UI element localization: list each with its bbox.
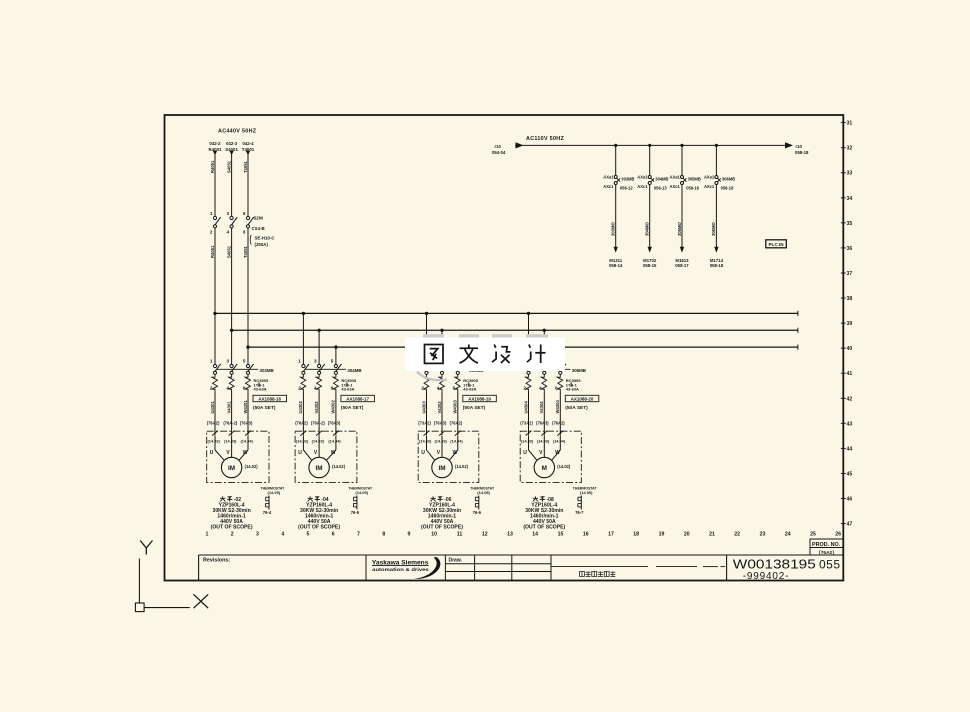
PLC input arrow M1311 — [614, 247, 618, 253]
svg-text:32: 32 — [847, 146, 853, 152]
svg-text:(14.02): (14.02) — [208, 439, 221, 444]
circuit breaker 52M poles — [210, 211, 254, 235]
svg-text:43: 43 — [847, 421, 853, 427]
svg-text:V: V — [437, 450, 441, 456]
svg-text:AXc1: AXc1 — [670, 184, 681, 189]
svg-text:V: V — [314, 450, 318, 456]
svg-text:1: 1 — [298, 359, 301, 364]
svg-text:CS4-B: CS4-B — [252, 226, 265, 231]
svg-text:43-63A: 43-63A — [463, 387, 476, 392]
svg-text:W4303: W4303 — [453, 400, 458, 414]
branch 06 wires overload to motor box — [427, 392, 458, 436]
svg-text:37: 37 — [847, 271, 853, 277]
svg-text:(73A2): (73A2) — [520, 421, 533, 426]
branch 02 cable labels — [210, 400, 248, 414]
motor 02 out-of-scope dash-dot box — [207, 431, 269, 482]
motor 04 terminal labels U V W — [298, 450, 336, 456]
control source label r10 054-04 — [492, 144, 506, 155]
svg-text:43-63A: 43-63A — [566, 387, 579, 392]
svg-text:r10: r10 — [495, 144, 502, 149]
svg-text:(14.03): (14.03) — [537, 439, 550, 444]
svg-text:6: 6 — [243, 230, 246, 235]
svg-text:AXc1: AXc1 — [637, 184, 648, 189]
axis horizontal line — [144, 607, 190, 609]
bus wire phase R — [215, 312, 798, 314]
svg-text:V4304: V4304 — [539, 401, 544, 414]
control drop junction 303MB — [614, 144, 617, 147]
feeder wire labels R4051 S4051 T4051 lower — [210, 245, 248, 258]
control wire 305MB lower — [681, 185, 683, 248]
svg-text:AXa1: AXa1 — [670, 175, 681, 180]
svg-text:43-63A: 43-63A — [341, 387, 354, 392]
svg-text:IM: IM — [228, 465, 235, 472]
svg-text:AC440V 50HZ: AC440V 50HZ — [218, 129, 257, 135]
svg-text:76-7: 76-7 — [575, 510, 584, 515]
overload setting box AX1088-19 — [463, 395, 497, 411]
Yaskawa Siemens logo — [372, 557, 441, 579]
thermal overload relay heaters branch 08 — [526, 374, 563, 391]
PLC input arrow M1613 — [680, 247, 684, 253]
svg-text:(50A SET): (50A SET) — [253, 405, 276, 411]
svg-text:1: 1 — [206, 532, 209, 538]
svg-text:305MO: 305MO — [677, 222, 682, 236]
svg-text:M1311: M1311 — [609, 258, 623, 263]
svg-text:18: 18 — [633, 532, 639, 538]
svg-text:11: 11 — [457, 532, 463, 538]
svg-text:(14.02): (14.02) — [332, 464, 346, 469]
thermostat 76-4 — [261, 486, 286, 515]
svg-text:7: 7 — [357, 532, 360, 538]
feeder phase wires breaker to buses — [215, 228, 248, 365]
feeder wire labels R4051 S4051 T4051 upper — [210, 160, 248, 173]
svg-text:17: 17 — [608, 532, 614, 538]
svg-text:S4051: S4051 — [226, 245, 231, 258]
svg-text:W00138195: W00138195 — [733, 557, 816, 572]
svg-text:5: 5 — [307, 532, 310, 538]
svg-text:R4051: R4051 — [210, 160, 215, 173]
motor 06 nameplate text — [421, 496, 463, 530]
thermal overload relay heaters branch 06 — [424, 374, 461, 391]
svg-text:(14.03): (14.03) — [435, 439, 448, 444]
svg-text:46: 46 — [847, 497, 853, 503]
feeder entry arrows — [213, 151, 250, 155]
svg-text:2: 2 — [210, 230, 213, 235]
axis vertical line — [138, 559, 140, 604]
svg-text:22: 22 — [734, 532, 740, 538]
svg-text:33: 33 — [847, 171, 853, 177]
svg-text:47: 47 — [847, 522, 853, 528]
svg-text:M1702: M1702 — [643, 258, 657, 263]
svg-text:[76A2]: [76A2] — [819, 550, 834, 556]
contactor 305MB main contacts — [421, 359, 483, 391]
PLC IN box — [766, 240, 787, 248]
control wire 306MB lower — [715, 185, 717, 248]
svg-text:058-15: 058-15 — [643, 263, 657, 268]
svg-text:AXa1: AXa1 — [637, 175, 648, 180]
svg-text:13: 13 — [507, 532, 513, 538]
motor 04 lead wires — [303, 436, 336, 461]
svg-text:3: 3 — [256, 532, 259, 538]
svg-text:(14.03): (14.03) — [224, 439, 237, 444]
svg-text:12: 12 — [482, 532, 488, 538]
svg-text:303MO: 303MO — [611, 222, 616, 236]
overload rating labels branch 06 — [463, 378, 478, 392]
svg-text:(14.02): (14.02) — [419, 439, 432, 444]
drawing number W00138195 055 — [733, 557, 841, 582]
svg-text:304MB: 304MB — [347, 368, 361, 373]
watermark gray arc below box — [417, 372, 447, 381]
motor 02 lead wires — [215, 436, 248, 461]
svg-text:39: 39 — [847, 321, 853, 327]
branch 02 page reference labels — [207, 421, 253, 426]
svg-text:SE-H10-C: SE-H10-C — [255, 236, 276, 241]
svg-text:056-16: 056-16 — [686, 186, 699, 191]
svg-text:AX1088-16: AX1088-16 — [258, 396, 281, 401]
thermostat 76-6 — [470, 486, 495, 515]
overload rating labels branch 08 — [566, 378, 581, 392]
svg-text:W4301: W4301 — [243, 400, 248, 414]
control wire 304MB lower — [649, 185, 651, 248]
svg-text:AXc1: AXc1 — [704, 184, 715, 189]
svg-text:U4302: U4302 — [298, 400, 303, 413]
svg-text:9: 9 — [408, 532, 411, 538]
svg-text:(76A3): (76A3) — [328, 421, 341, 426]
svg-text:303MB: 303MB — [260, 368, 274, 373]
svg-text:AXc1: AXc1 — [603, 184, 614, 189]
svg-text:(OUT OF SCOPE): (OUT OF SCOPE) — [298, 525, 340, 531]
svg-text:(14.03): (14.03) — [312, 439, 325, 444]
svg-text:W4304: W4304 — [555, 400, 560, 414]
svg-text:14: 14 — [532, 532, 538, 538]
svg-text:303MB: 303MB — [621, 176, 634, 181]
motor 08 terminal labels U V W — [523, 450, 560, 456]
motor 08 lead wires — [529, 436, 561, 461]
svg-text:PLC IN: PLC IN — [768, 242, 784, 247]
svg-text:V4301: V4301 — [226, 401, 231, 414]
control drop junction 306MB — [715, 144, 718, 147]
control wire 304MB upper — [649, 145, 651, 175]
svg-text:304MO: 304MO — [645, 222, 650, 236]
contactor 304MB main contacts — [298, 359, 361, 391]
svg-text:(14.02): (14.02) — [557, 464, 571, 469]
control bus left arrow — [516, 142, 524, 148]
motor 02 terminal labels U V W — [210, 450, 248, 456]
auxiliary contact 305MB — [670, 175, 701, 191]
svg-text:(50A SET): (50A SET) — [463, 405, 486, 411]
svg-text:058-17: 058-17 — [675, 263, 689, 268]
svg-text:055: 055 — [819, 558, 841, 572]
drawing frame border — [165, 115, 844, 581]
control bus wire — [515, 144, 792, 146]
svg-text:(OUT OF SCOPE): (OUT OF SCOPE) — [211, 525, 253, 531]
svg-text:U4303: U4303 — [421, 400, 426, 413]
svg-text:(50A SET): (50A SET) — [565, 405, 588, 411]
svg-text:V: V — [539, 450, 543, 456]
svg-text:M1714: M1714 — [710, 258, 724, 263]
svg-text:43-63A: 43-63A — [254, 387, 267, 392]
svg-text:306MO: 306MO — [711, 222, 716, 236]
svg-text:3: 3 — [314, 359, 317, 364]
product number box PROD. NO. — [810, 539, 843, 556]
svg-text:058-18: 058-18 — [710, 263, 724, 268]
svg-text:31: 31 — [847, 121, 853, 127]
branch 08 tap wires and junctions — [527, 312, 562, 365]
svg-text:056-12: 056-12 — [620, 186, 633, 191]
svg-text:6: 6 — [332, 532, 335, 538]
watermark text tu wen she ji — [425, 345, 546, 364]
svg-text:19: 19 — [659, 532, 665, 538]
svg-text:Revisions:: Revisions: — [203, 558, 230, 564]
svg-text:M: M — [542, 465, 547, 472]
svg-text:T4051: T4051 — [243, 160, 248, 173]
breaker rating label CS4-B SE-H10-C 250A — [250, 226, 275, 247]
control bus right arrow — [785, 142, 793, 148]
title chinese text — [580, 572, 616, 577]
svg-text:M1613: M1613 — [675, 258, 689, 263]
svg-text:15: 15 — [558, 532, 564, 538]
motor 06 lead wires — [427, 436, 458, 461]
svg-text:U: U — [210, 450, 214, 456]
svg-text:(OUT OF SCOPE): (OUT OF SCOPE) — [523, 525, 565, 531]
thermal overload relay heaters branch 04 — [300, 374, 338, 391]
thermostat 76-5 — [348, 486, 373, 515]
motor 08 terminal marks and refs — [521, 431, 566, 444]
svg-text:056-13: 056-13 — [654, 186, 667, 191]
svg-text:U: U — [523, 450, 527, 456]
motor 04 terminal marks and refs — [296, 431, 342, 444]
axis origin square — [135, 603, 144, 612]
svg-text:IM: IM — [438, 465, 445, 472]
svg-text:3: 3 — [226, 359, 229, 364]
svg-text:V: V — [226, 450, 230, 456]
svg-text:AX1088-17: AX1088-17 — [346, 396, 369, 401]
PLC input label M1613 058-17 — [675, 258, 689, 268]
motor 02 terminal marks and refs — [208, 431, 254, 444]
svg-text:AXa1: AXa1 — [603, 175, 614, 180]
column coordinate numbers 1-26 on bottom — [206, 532, 842, 538]
svg-text:34: 34 — [847, 196, 853, 202]
motor 04 out-of-scope dash-dot box — [295, 431, 357, 482]
svg-text:26: 26 — [835, 532, 841, 538]
svg-text:5: 5 — [243, 211, 246, 216]
control wire 303MB upper — [615, 145, 617, 175]
svg-text:(76A3): (76A3) — [536, 421, 549, 426]
PLC input label M1714 058-18 — [710, 258, 724, 268]
branch 06 tap wires and junctions — [425, 312, 460, 365]
svg-text:R4051: R4051 — [210, 245, 215, 258]
svg-text:20: 20 — [684, 532, 690, 538]
induction motor 06 IM — [432, 457, 452, 477]
svg-text:16: 16 — [583, 532, 589, 538]
thermostat 76-7 — [573, 486, 598, 515]
svg-text:(14.02): (14.02) — [296, 439, 309, 444]
branch 06 page reference labels — [418, 421, 462, 426]
svg-text:(14.04): (14.04) — [553, 439, 566, 444]
contactor 303MB main contacts — [210, 359, 274, 391]
bus wire phase T — [248, 346, 798, 348]
motor 08 nameplate text — [523, 496, 565, 530]
svg-text:(14.05): (14.05) — [268, 490, 281, 495]
axis marker Y — [140, 541, 152, 555]
svg-text:(14.04): (14.04) — [241, 439, 254, 444]
svg-text:24: 24 — [785, 532, 791, 538]
branch 04 wires overload to motor box — [303, 392, 336, 436]
svg-text:(OUT OF SCOPE): (OUT OF SCOPE) — [421, 525, 463, 531]
svg-text:(50A SET): (50A SET) — [341, 405, 364, 411]
svg-text:(76A-2): (76A-2) — [311, 421, 326, 426]
svg-text:(73A2): (73A2) — [418, 421, 431, 426]
motor 06 terminal marks and refs — [419, 431, 463, 444]
branch 02 bus junction dots — [213, 312, 249, 349]
svg-text:U: U — [421, 450, 425, 456]
title block outline — [199, 555, 844, 581]
svg-text:306MB: 306MB — [572, 368, 586, 373]
svg-text:AX1088-19: AX1088-19 — [468, 396, 491, 401]
svg-text:U4304: U4304 — [523, 400, 528, 413]
svg-text:(14.05): (14.05) — [477, 490, 490, 495]
svg-text:5: 5 — [331, 359, 334, 364]
motor 08 out-of-scope dash-dot box — [520, 431, 581, 482]
svg-text:38: 38 — [847, 296, 853, 302]
svg-text:(76A3): (76A3) — [240, 421, 253, 426]
branch 08 page reference labels — [520, 421, 565, 426]
control drop junction 304MB — [648, 144, 651, 147]
svg-text:AXa1: AXa1 — [704, 175, 715, 180]
svg-text:76-6: 76-6 — [473, 510, 482, 515]
branch 08 wires overload to motor box — [529, 392, 561, 436]
auxiliary contact 303MB — [603, 175, 634, 191]
svg-text:r10: r10 — [796, 144, 803, 149]
overload setting box AX1088-16 — [253, 395, 287, 411]
svg-text:AX1088-20: AX1088-20 — [571, 396, 594, 401]
branch 08 cable labels — [523, 400, 560, 414]
svg-text:042-2: 042-2 — [209, 141, 221, 146]
auxiliary contact 306MB — [704, 175, 735, 191]
svg-text:40: 40 — [847, 346, 853, 352]
control destination label r10 058-18 — [795, 144, 809, 155]
svg-text:054-04: 054-04 — [492, 150, 506, 155]
branch 04 cable labels — [298, 400, 336, 414]
svg-text:(76A3): (76A3) — [434, 421, 447, 426]
svg-text:305MB: 305MB — [688, 176, 701, 181]
motor 06 out-of-scope dash-dot box — [418, 431, 479, 482]
svg-text:V4302: V4302 — [314, 401, 319, 414]
svg-text:52M: 52M — [254, 216, 263, 222]
svg-text:4: 4 — [226, 230, 229, 235]
branch 02 wires overload to motor box — [215, 392, 248, 436]
control drop junction 305MB — [680, 144, 683, 147]
svg-text:21: 21 — [709, 532, 715, 538]
PLC input arrow M1714 — [714, 247, 718, 253]
svg-text:5: 5 — [243, 359, 246, 364]
svg-text:304MB: 304MB — [655, 176, 668, 181]
overload setting box AX1088-17 — [341, 395, 375, 411]
svg-text:(14.05): (14.05) — [355, 490, 368, 495]
motor 02 nameplate text — [211, 496, 253, 530]
motor 06 terminal labels U V W — [421, 450, 457, 456]
branch 04 tap wires and junctions — [302, 312, 338, 365]
svg-text:44: 44 — [847, 446, 853, 452]
svg-text:IM: IM — [316, 465, 323, 472]
svg-text:42: 42 — [847, 396, 853, 402]
overload setting box AX1088-20 — [565, 395, 599, 411]
svg-text:(14.02): (14.02) — [245, 464, 259, 469]
control wire 305MB upper — [681, 145, 683, 175]
motor 04 nameplate text — [298, 496, 340, 530]
svg-text:(76A2): (76A2) — [295, 421, 308, 426]
PLC input arrow M1702 — [648, 247, 652, 253]
svg-text:41: 41 — [847, 371, 853, 377]
axis marker X — [194, 594, 209, 608]
control wire 303MB lower — [615, 185, 617, 248]
bus end ticks — [797, 311, 799, 350]
watermark gray remnants above box — [423, 334, 548, 338]
PLC input label M1702 058-15 — [643, 258, 657, 268]
svg-text:23: 23 — [760, 532, 766, 538]
induction motor 04 IM — [309, 457, 329, 477]
svg-text:1: 1 — [210, 211, 213, 216]
svg-text:(76A-2): (76A-2) — [223, 421, 238, 426]
contactor 306MB main contacts — [523, 359, 586, 391]
svg-text:T4051: T4051 — [243, 245, 248, 258]
induction motor 02 IM — [221, 457, 241, 477]
svg-text:(76A2): (76A2) — [207, 421, 220, 426]
svg-text:automation & drives: automation & drives — [372, 567, 429, 572]
feeder phase wires from entry to breaker — [215, 154, 248, 216]
svg-text:AC110V 50HZ: AC110V 50HZ — [526, 136, 564, 142]
svg-text:042-4: 042-4 — [242, 141, 254, 146]
svg-text:U4301: U4301 — [210, 400, 215, 413]
overload rating labels branch 02 — [254, 378, 269, 392]
svg-text:(76A2): (76A2) — [552, 421, 565, 426]
feeder source labels 042-2 R4001 / 042-3 S4001 / 042-4 T4001 — [209, 141, 255, 152]
svg-text:45: 45 — [847, 471, 853, 477]
svg-text:36: 36 — [847, 246, 853, 252]
svg-text:4: 4 — [281, 532, 284, 538]
svg-text:(14.02): (14.02) — [455, 464, 469, 469]
svg-text:S4051: S4051 — [226, 160, 231, 173]
svg-text:306MB: 306MB — [722, 176, 735, 181]
svg-text:2: 2 — [231, 532, 234, 538]
svg-text:W4302: W4302 — [331, 400, 336, 414]
svg-text:042-3: 042-3 — [226, 141, 238, 146]
svg-text:058-14: 058-14 — [609, 263, 623, 268]
svg-text:76-5: 76-5 — [351, 510, 360, 515]
svg-text:76-4: 76-4 — [263, 510, 272, 515]
svg-text:(14.02): (14.02) — [521, 439, 534, 444]
row coordinate ticks and numbers 31-47 on right edge — [841, 121, 853, 528]
svg-text:(14.04): (14.04) — [450, 439, 463, 444]
svg-text:(14.04): (14.04) — [328, 439, 341, 444]
control wire 306MB upper — [715, 145, 717, 175]
svg-text:(76A2): (76A2) — [450, 421, 463, 426]
svg-text:058-18: 058-18 — [721, 186, 734, 191]
svg-text:8: 8 — [382, 532, 385, 538]
watermark white box — [405, 338, 565, 372]
branch 06 cable labels — [421, 400, 457, 414]
svg-text:V4303: V4303 — [437, 401, 442, 414]
svg-text:-999402-: -999402- — [743, 571, 789, 582]
svg-text:Draw.: Draw. — [449, 558, 463, 564]
svg-text:25: 25 — [810, 532, 816, 538]
svg-text:(14.05): (14.05) — [580, 490, 593, 495]
induction motor 08 IM — [534, 457, 554, 477]
svg-text:3: 3 — [226, 211, 229, 216]
branch 04 page reference labels — [295, 421, 341, 426]
svg-text:1: 1 — [210, 359, 213, 364]
auxiliary contact 304MB — [637, 175, 668, 191]
svg-text:058-18: 058-18 — [795, 150, 809, 155]
